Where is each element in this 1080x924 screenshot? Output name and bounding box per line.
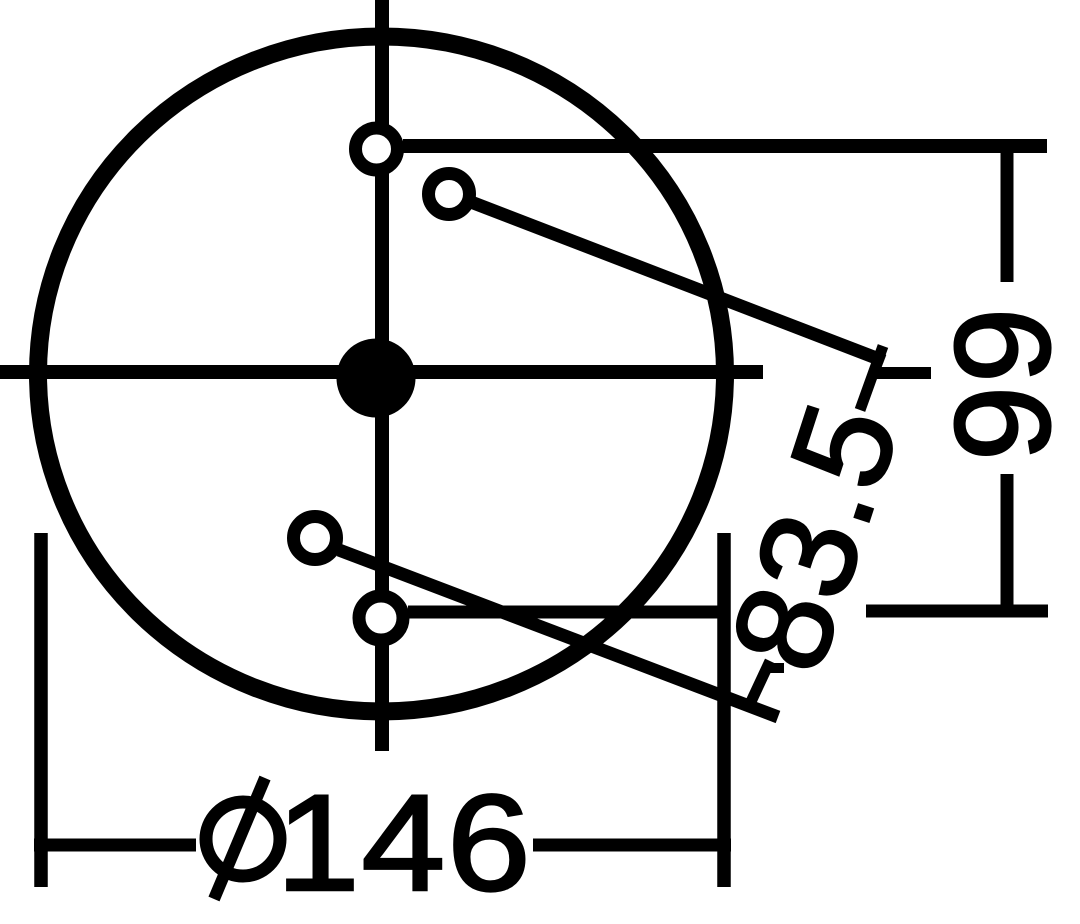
oblique tick lower — [749, 661, 770, 706]
hole lower-left — [294, 517, 337, 560]
wire: vertical centerline — [375, 0, 389, 751]
phi146 dimension line right segment — [533, 839, 731, 852]
diameter symbol phi slash — [214, 778, 265, 899]
svg-text:99: 99 — [927, 305, 1078, 461]
leader from upper-right hole — [471, 202, 884, 361]
99 dimension line upper segment — [1001, 146, 1014, 282]
dimension line from bottom hole — [408, 606, 730, 619]
99 dimension bottom tick — [866, 605, 1048, 618]
leader from lower-left hole — [339, 550, 778, 717]
mounting plate circle — [38, 37, 725, 712]
hole bottom — [359, 596, 403, 640]
nub at lower tick — [766, 663, 784, 673]
hole upper-right — [429, 174, 470, 215]
svg-text:146: 146 — [276, 766, 532, 919]
center dot — [337, 339, 416, 418]
wire: horizontal centerline — [0, 365, 763, 379]
leader from top hole — [403, 139, 1047, 153]
svg-text:83.5: 83.5 — [701, 386, 928, 688]
phi146 dimension line left segment — [34, 839, 196, 852]
extension line right — [717, 533, 731, 887]
stub at end of upper leader — [874, 367, 931, 379]
diameter symbol phi circle — [206, 802, 280, 876]
oblique tick upper — [860, 346, 883, 410]
extension line left — [34, 533, 48, 887]
hole top — [356, 128, 398, 170]
99 dimension line lower segment — [1001, 474, 1014, 611]
